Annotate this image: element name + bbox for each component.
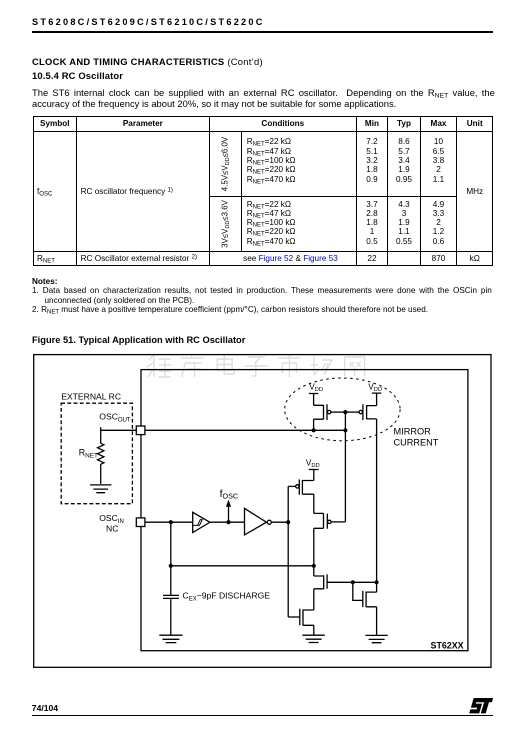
capacitor CEX: [163, 595, 179, 598]
ground (external RC): [90, 485, 111, 493]
transistor P3: [299, 479, 314, 494]
wire capacitor to ground: [170, 598, 172, 635]
svg-text:OSCOUT: OSCOUT: [99, 411, 131, 423]
wire P3 to P4: [313, 494, 315, 513]
transistor M2 mirror right PMOS: [363, 404, 377, 420]
chip box ST62XX: [141, 370, 468, 651]
inverter U2 triangle: [245, 508, 267, 535]
svg-text:NC: NC: [106, 524, 118, 534]
junction M1 drain on OSCout bus: [312, 428, 316, 432]
VDD supply (middle): [309, 470, 319, 481]
net feedback vertical: [287, 486, 289, 617]
pin square OSCin: [136, 518, 145, 527]
wire bus OSCout to mirror: [145, 429, 346, 431]
wire N6 to ground: [313, 625, 315, 635]
footer rule: [32, 715, 493, 716]
wire N6 gate: [288, 616, 299, 618]
notes: [32, 277, 57, 286]
junction inverter2 output / feedback net: [286, 520, 290, 524]
section heading: [32, 56, 263, 67]
ground (capacitor): [159, 635, 182, 642]
wire inverter2 output: [271, 521, 288, 523]
inverter U2 output bubble: [267, 520, 271, 524]
svg-text:EXTERNAL RC: EXTERNAL RC: [61, 391, 121, 401]
junction OSCin / CEX branch: [169, 520, 173, 524]
wire N7 to ground: [376, 607, 378, 635]
svg-text:VDD: VDD: [309, 382, 323, 393]
junction mirror net on OSCout bus: [343, 428, 347, 432]
transistor N5: [314, 574, 327, 589]
wire resistor to ground: [100, 464, 102, 484]
transistor N7: [363, 591, 377, 607]
wire M2 drain long vertical: [376, 419, 378, 592]
svg-text:MIRROR: MIRROR: [394, 426, 432, 436]
ground (N6): [302, 635, 324, 642]
net mirror gate vertical: [344, 412, 346, 522]
fOSC arrow: [228, 506, 230, 522]
header title: [32, 17, 265, 27]
ground (N7): [365, 635, 387, 642]
svg-text:fOSC: fOSC: [220, 488, 239, 501]
fOSC arrowhead: [226, 500, 231, 507]
wire inverter1 to inverter2: [210, 521, 245, 523]
junction N7 gate branch: [351, 580, 355, 584]
junction discharge node at stack: [312, 564, 316, 568]
junction CEX discharge node left: [169, 564, 173, 568]
footer page number: [32, 703, 58, 713]
wire discharge node horizontal: [171, 565, 314, 567]
wire N5 gate bus: [327, 581, 377, 583]
dashed box EXTERNAL RC: [61, 403, 132, 504]
svg-text:CURRENT: CURRENT: [394, 438, 439, 448]
wire OSCout corner: [101, 427, 137, 443]
figure outer frame: [34, 355, 491, 668]
junction fOSC tap: [226, 520, 230, 524]
svg-text:VDD: VDD: [306, 459, 320, 470]
resistor RNET: [97, 443, 103, 464]
wire N5 to N6: [313, 589, 315, 610]
table: [33, 116, 494, 267]
transistor P4: [314, 513, 328, 528]
wire OSCin to inverter: [145, 521, 193, 523]
ST logo: [460, 690, 504, 720]
VDD supply (mirror left): [309, 394, 318, 406]
transistor N6: [300, 609, 314, 626]
svg-text:ST62XX: ST62XX: [431, 641, 464, 651]
transistor M1 mirror left PMOS: [314, 404, 327, 420]
junction N5 gate / M2 drain: [375, 580, 379, 584]
pin square OSCout: [136, 426, 145, 435]
wire P4 to N5: [313, 528, 315, 576]
junction mirror gates node: [343, 410, 347, 414]
hysteresis symbol: [193, 520, 202, 526]
paragraph: [32, 87, 495, 110]
VDD supply (mirror right): [372, 393, 381, 406]
wire branch down to capacitor: [170, 522, 172, 595]
svg-text:CEX~9pF DISCHARGE: CEX~9pF DISCHARGE: [183, 590, 271, 602]
header rule: [32, 31, 493, 33]
wire N7 gate branch: [353, 582, 363, 600]
inverter U1 schmitt triangle: [193, 512, 210, 532]
mirror ellipse: [285, 378, 400, 441]
watermark 维库电子市场网: [147, 354, 365, 377]
figure caption: [32, 335, 245, 345]
svg-text:RNET: RNET: [79, 447, 98, 459]
